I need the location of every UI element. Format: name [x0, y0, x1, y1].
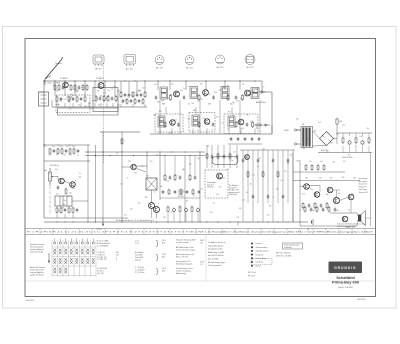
junction	[64, 80, 65, 81]
bottom right schematic note	[337, 223, 365, 229]
value labels AF preamp	[55, 169, 81, 213]
svg-text:470: 470	[320, 161, 323, 163]
right boxed note	[283, 243, 303, 249]
svg-text:100: 100	[63, 155, 66, 157]
right small note lines	[276, 253, 292, 258]
coil table crosses row 2	[53, 258, 94, 264]
wire AM coil link	[51, 100, 53, 107]
wire right bottom rail	[300, 225, 357, 227]
svg-text:3,9k: 3,9k	[236, 101, 239, 103]
parts list column 1 sub values	[116, 252, 119, 261]
svg-text:8,2k: 8,2k	[319, 178, 322, 180]
svg-text:5n: 5n	[204, 96, 206, 98]
band tick marks and scale text	[40, 228, 365, 234]
capacitor C36	[252, 121, 254, 128]
wire below row2	[228, 143, 262, 145]
svg-text:0,5: 0,5	[213, 202, 215, 204]
resistor R17	[124, 93, 127, 97]
resistor R79	[326, 202, 328, 209]
svg-text:330: 330	[88, 103, 91, 105]
capacitor C2	[60, 97, 63, 101]
svg-text:Fi6: Fi6	[193, 110, 196, 112]
junction	[144, 80, 145, 81]
transistor T6 AC122	[170, 120, 176, 126]
svg-text:2n2: 2n2	[240, 98, 243, 100]
svg-text:12p: 12p	[200, 98, 203, 100]
resistor R70 dropper	[336, 118, 338, 126]
wire dropper	[336, 126, 338, 134]
transistor T17 AC151	[314, 192, 320, 198]
svg-text:HF 12 uV: HF 12 uV	[248, 275, 256, 277]
resistor R3	[62, 85, 65, 89]
tone network dashed box	[205, 170, 228, 198]
AM converter dashed shield 3	[224, 114, 258, 134]
resistor R48	[77, 149, 80, 153]
svg-text:20kOhm/V: 20kOhm/V	[229, 194, 238, 196]
wire mid rail 2	[85, 155, 205, 157]
svg-text:L3: L3	[98, 105, 100, 107]
svg-text:Chassis bei: Chassis bei	[359, 184, 368, 186]
transistor T5 AF117 IF3	[245, 90, 251, 96]
svg-text:4,7k: 4,7k	[64, 99, 67, 101]
svg-text:0,5: 0,5	[257, 166, 259, 168]
svg-text:10k: 10k	[192, 103, 195, 105]
junction	[254, 80, 255, 81]
capacitor C86 filter	[368, 137, 370, 145]
wire front-end ground rail	[52, 106, 147, 108]
ferrite antenna input box	[39, 92, 49, 106]
speaker LS1	[358, 211, 366, 226]
svg-text:470: 470	[269, 205, 272, 207]
capacitor C61	[173, 207, 176, 212]
wire driver2 links	[122, 166, 131, 168]
svg-text:1n: 1n	[263, 87, 265, 89]
svg-text:30p: 30p	[159, 121, 162, 123]
svg-text:3,9k: 3,9k	[69, 155, 72, 157]
capacitor C1	[56, 96, 58, 103]
svg-text:15n: 15n	[348, 154, 351, 156]
svg-text:Tel. Ant.: Tel. Ant.	[55, 62, 63, 65]
IF transformer Fi6	[192, 115, 199, 126]
svg-text:470: 470	[351, 194, 354, 196]
svg-text:C 2 2x320 pF: C 2 2x320 pF	[135, 270, 145, 272]
capacitor C79	[277, 171, 279, 178]
resistor R77	[314, 202, 316, 209]
resistor R78	[320, 203, 323, 207]
svg-text:30p: 30p	[197, 158, 200, 160]
value labels output stage	[116, 152, 203, 218]
notes fold rule vertical	[205, 234, 207, 281]
svg-text:25u: 25u	[262, 149, 265, 151]
resistor R28	[227, 94, 229, 101]
cable connector oval	[204, 52, 206, 54]
resistor R47	[73, 148, 75, 155]
wire AF bottom drops	[56, 214, 58, 218]
svg-text:12p: 12p	[59, 101, 62, 103]
junction	[94, 80, 95, 81]
resistor R63	[179, 175, 182, 179]
capacitor C85 filter	[361, 140, 364, 146]
wire output bottoms	[167, 213, 169, 222]
wire row2 drops	[159, 129, 161, 135]
resistor R8	[86, 84, 88, 91]
svg-text:a: a	[116, 257, 117, 259]
capacitor C82 filter	[342, 137, 344, 145]
IF transformer Fi7	[228, 116, 235, 127]
svg-text:12p: 12p	[114, 86, 117, 88]
resistor R23	[155, 95, 158, 99]
svg-text:2k2: 2k2	[130, 209, 133, 211]
oscillator shield box	[93, 88, 118, 112]
coil table caption	[30, 243, 45, 254]
svg-text:5k6: 5k6	[100, 96, 103, 98]
capacitor C13	[134, 98, 136, 105]
svg-text:100: 100	[239, 208, 242, 210]
svg-text:bzw. 10,7 MHz.: bzw. 10,7 MHz.	[208, 259, 219, 261]
svg-text:470: 470	[250, 121, 253, 123]
svg-text:5k6: 5k6	[164, 126, 167, 128]
capacitor C33	[212, 122, 215, 126]
tone box tiny text	[207, 181, 216, 189]
capacitor C14	[138, 99, 141, 103]
resistor R18	[128, 93, 131, 97]
resistor R13	[107, 95, 109, 102]
wire IF ground rail	[150, 133, 272, 135]
svg-text:25u: 25u	[338, 193, 341, 195]
GRUNDIG logo box	[329, 262, 363, 274]
svg-text:5n: 5n	[79, 173, 81, 175]
svg-text:100: 100	[166, 180, 169, 182]
junction	[54, 80, 55, 81]
svg-text:L2: L2	[78, 105, 80, 107]
svg-text:6k8: 6k8	[61, 208, 64, 210]
resistor R51	[65, 188, 67, 195]
svg-text:AC 122: AC 122	[156, 67, 164, 70]
resistor R91	[168, 189, 170, 196]
svg-text:1,5k: 1,5k	[48, 155, 51, 157]
svg-text:25u: 25u	[183, 88, 186, 90]
svg-text:6k8: 6k8	[161, 100, 164, 102]
wire filter drops	[342, 146, 344, 153]
resistor R41	[49, 148, 51, 155]
transistor T10 AC151 driver	[70, 182, 76, 188]
resistor R96	[198, 190, 201, 194]
svg-text:b: b	[116, 259, 117, 261]
transistor T20 AC132 output	[348, 194, 354, 200]
svg-text:6,8 50u: 6,8 50u	[178, 196, 184, 198]
value labels tone section	[207, 146, 293, 219]
resistor R96	[304, 206, 306, 213]
bridge rectifier Gl1	[320, 132, 334, 153]
wire mains leads	[297, 129, 301, 131]
resistor R27	[212, 95, 215, 99]
capacitor C84 filter	[355, 137, 357, 145]
svg-text:Spannungen bei 9 V: Spannungen bei 9 V	[176, 261, 191, 263]
schematic border frame	[25, 39, 376, 297]
svg-text:siehe Service-Anl.: siehe Service-Anl.	[30, 251, 44, 254]
coil table header circles	[54, 239, 95, 245]
svg-text:0,5: 0,5	[125, 100, 127, 102]
capacitor C41	[237, 137, 240, 141]
junction	[205, 80, 206, 81]
svg-text:6k8: 6k8	[207, 124, 210, 126]
svg-text:30p: 30p	[276, 189, 279, 191]
wire supply ground rail	[318, 152, 372, 154]
wire output verticals	[164, 156, 166, 176]
svg-text:1k: 1k	[212, 130, 214, 132]
svg-text:1k: 1k	[355, 146, 357, 148]
resistor R65	[194, 175, 197, 179]
resistor R20	[136, 93, 139, 97]
band lower rule	[25, 233, 376, 235]
svg-text:24627/06: 24627/06	[357, 299, 366, 301]
capacitor C42	[244, 137, 247, 141]
resistor R90	[162, 190, 165, 194]
resistor R98	[316, 206, 318, 213]
svg-text:0,35: 0,35	[92, 100, 95, 102]
svg-text:1,5k: 1,5k	[200, 189, 203, 191]
resistor R29	[235, 95, 238, 99]
IF transformer Fi1	[160, 87, 168, 99]
transistor T21	[342, 216, 348, 222]
wire vertical bus a	[87, 145, 89, 222]
svg-text:30p: 30p	[55, 169, 58, 171]
transistor T19 AC132 output	[333, 197, 339, 203]
transistor T11 AC151 driver2	[131, 164, 136, 169]
wire bridge output rail	[334, 138, 338, 140]
transistor T8 AC122	[238, 119, 244, 125]
svg-text:AF 117: AF 117	[95, 68, 102, 71]
svg-text:330: 330	[332, 161, 335, 163]
resistor R53	[60, 207, 62, 214]
resistor R15	[115, 95, 117, 102]
coil table crosses row 1	[53, 249, 94, 255]
svg-text:2n2: 2n2	[284, 171, 287, 173]
svg-text:Schraubanschluss: Schraubanschluss	[256, 251, 269, 253]
capacitor C64	[191, 206, 193, 213]
transistor case outline AC117 bottom view	[185, 56, 194, 70]
svg-text:3,9k: 3,9k	[153, 114, 156, 116]
resistor R5	[74, 84, 76, 91]
transistor T2 AF117 mixer-osc	[98, 83, 104, 89]
mains terminal lower	[294, 143, 296, 145]
resistor R2	[58, 84, 60, 91]
svg-text:24627 123: 24627 123	[346, 227, 355, 229]
right notes column	[208, 241, 226, 267]
resistor R83	[323, 164, 325, 171]
svg-text:12p: 12p	[242, 200, 245, 202]
svg-text:220: 220	[256, 88, 259, 90]
svg-text:4,7k: 4,7k	[226, 169, 229, 171]
svg-text:2k2: 2k2	[222, 87, 225, 89]
svg-text:mechan. Verbindung: mechan. Verbindung	[176, 271, 191, 273]
svg-text:330: 330	[241, 128, 244, 130]
capacitor C62	[179, 206, 181, 213]
resistor R22	[144, 91, 146, 98]
svg-text:330: 330	[138, 90, 141, 92]
value labels power supply	[296, 119, 369, 157]
svg-text:50u: 50u	[64, 200, 67, 202]
svg-text:AC 117: AC 117	[186, 67, 193, 70]
svg-text:4,7k: 4,7k	[121, 102, 124, 104]
mains terminal upper	[294, 129, 296, 131]
junction AGC	[43, 144, 44, 145]
mid tiny text block	[229, 184, 240, 196]
svg-text:220: 220	[203, 118, 206, 120]
svg-text:12p: 12p	[230, 160, 233, 162]
svg-text:2k2: 2k2	[252, 174, 255, 176]
capacitor C4	[72, 97, 75, 101]
svg-text:T11: T11	[128, 161, 131, 163]
capacitor C69	[223, 154, 226, 158]
svg-text:5n: 5n	[193, 195, 195, 197]
svg-text:40: 40	[97, 91, 99, 93]
telescopic antenna	[45, 57, 64, 85]
svg-text:30p: 30p	[79, 177, 82, 179]
svg-text:NF 1,5 mV: NF 1,5 mV	[248, 272, 257, 274]
resistor R76	[308, 203, 311, 207]
resistor R56	[72, 207, 74, 214]
svg-text:1,5k: 1,5k	[156, 154, 159, 156]
svg-text:3,9k: 3,9k	[169, 132, 172, 134]
value labels IF row2	[153, 114, 259, 134]
resistor R1	[54, 84, 56, 91]
wire mid rail left	[100, 131, 140, 133]
capacitor C75	[257, 158, 260, 162]
wire lower-left rail	[44, 217, 128, 219]
svg-text:C 1 2x12 pF: C 1 2x12 pF	[135, 267, 144, 269]
svg-text:2n2: 2n2	[124, 215, 127, 217]
svg-text:15n: 15n	[72, 146, 75, 148]
svg-text:1n: 1n	[77, 155, 79, 157]
transistor T4 AF117 IF2	[203, 90, 209, 96]
junction	[185, 80, 186, 81]
resistor R40 horizontal	[255, 124, 263, 126]
svg-text:Bei Netzbetrieb Brucke 1-2, be: Bei Netzbetrieb Brucke 1-2, bei Batterie…	[116, 219, 154, 222]
resistor R101	[334, 207, 337, 211]
svg-text:15n: 15n	[336, 210, 339, 212]
svg-text:15n: 15n	[216, 194, 219, 196]
junction	[114, 80, 115, 81]
parts list column 1 group a	[97, 241, 110, 248]
resistor R60	[164, 174, 166, 181]
capacitor C6	[80, 97, 83, 101]
wire speaker to bus	[366, 217, 371, 219]
IF transformer Fi2	[190, 87, 198, 99]
capacitor C78	[272, 158, 275, 162]
svg-text:1,5k: 1,5k	[167, 97, 170, 99]
bottom left arrow label	[96, 218, 104, 231]
wire mid rail 1	[85, 151, 205, 153]
svg-text:dann FM. ZF 460 kHz: dann FM. ZF 460 kHz	[208, 255, 224, 257]
capacitor C50	[57, 185, 60, 189]
svg-text:100: 100	[117, 105, 120, 107]
svg-text:470: 470	[342, 125, 345, 127]
svg-text:4 5 6: 4 5 6	[135, 243, 139, 245]
resistor R82	[317, 164, 319, 171]
capacitor C11	[126, 98, 128, 105]
svg-text:5n: 5n	[56, 154, 58, 156]
wire detector to volume	[271, 125, 273, 134]
svg-text:0,5: 0,5	[44, 146, 46, 148]
svg-text:100k log: 100k log	[207, 187, 213, 189]
svg-text:25u: 25u	[107, 90, 110, 92]
junction	[157, 80, 158, 81]
junction	[104, 80, 105, 81]
capacitor C34	[235, 121, 237, 128]
resistor R12	[103, 95, 105, 102]
svg-text:2n2: 2n2	[246, 192, 249, 194]
svg-text:470: 470	[186, 201, 189, 203]
svg-text:AC 132: AC 132	[217, 66, 225, 69]
wire right rail 1	[293, 171, 345, 173]
svg-text:87,5...100 MHz: 87,5...100 MHz	[48, 83, 61, 85]
svg-text:30p: 30p	[160, 186, 163, 188]
svg-text:460: 460	[116, 252, 119, 254]
capacitor C44	[258, 137, 261, 141]
wire tone verticals	[242, 150, 244, 222]
driver transformer Tr1	[55, 196, 72, 206]
wire preamp links	[54, 176, 59, 178]
svg-text:3,9k: 3,9k	[134, 172, 137, 174]
wire row2 risers	[165, 107, 167, 114]
svg-text:4,7k: 4,7k	[210, 212, 213, 214]
coil table crosses row 3	[53, 268, 67, 274]
svg-text:UKW: 87,5...100 MHz: UKW: 87,5...100 MHz	[276, 255, 292, 257]
resistor R61	[169, 175, 172, 179]
transistor T12 AC132 output	[149, 203, 155, 209]
svg-text:8,2k: 8,2k	[157, 101, 160, 103]
variable capacitor C1b arrow	[104, 95, 109, 101]
transistor T14 AC122	[217, 173, 223, 179]
svg-text:470: 470	[103, 93, 106, 95]
svg-text:470: 470	[67, 196, 70, 198]
svg-text:47k: 47k	[343, 161, 346, 163]
svg-text:100: 100	[222, 177, 225, 179]
svg-text:6k8: 6k8	[162, 104, 165, 106]
svg-text:3,9k: 3,9k	[219, 89, 222, 91]
svg-text:1k: 1k	[56, 91, 58, 93]
svg-text:5k6: 5k6	[296, 119, 299, 121]
IF transformer Fi5	[158, 116, 165, 127]
svg-text:10k: 10k	[44, 170, 47, 172]
svg-text:68p: 68p	[312, 210, 315, 212]
resistor R7	[82, 84, 84, 91]
svg-text:2n2: 2n2	[216, 116, 219, 118]
svg-text:47k: 47k	[307, 139, 310, 141]
svg-text:ohne Signal: ohne Signal	[359, 189, 368, 191]
svg-text:AC 151: AC 151	[126, 68, 134, 71]
svg-text:30p: 30p	[214, 92, 217, 94]
capacitor C7	[84, 96, 86, 103]
svg-text:T5: T5	[242, 84, 244, 86]
resistor R25	[183, 95, 186, 99]
capacitor C67	[211, 154, 214, 158]
svg-text:1,5k: 1,5k	[326, 152, 329, 154]
svg-text:2k2: 2k2	[132, 95, 135, 97]
resistor R14	[111, 96, 114, 100]
svg-text:47k: 47k	[135, 92, 138, 94]
capacitor C66	[206, 153, 208, 160]
capacitor C77	[267, 194, 270, 198]
resistor R50	[121, 138, 123, 146]
wire detector drop	[271, 92, 273, 134]
junction dots bottom rail	[57, 222, 58, 223]
svg-text:100: 100	[180, 90, 183, 92]
resistor R45	[65, 149, 68, 153]
svg-text:47k: 47k	[84, 105, 87, 107]
resistor R6	[78, 85, 81, 89]
